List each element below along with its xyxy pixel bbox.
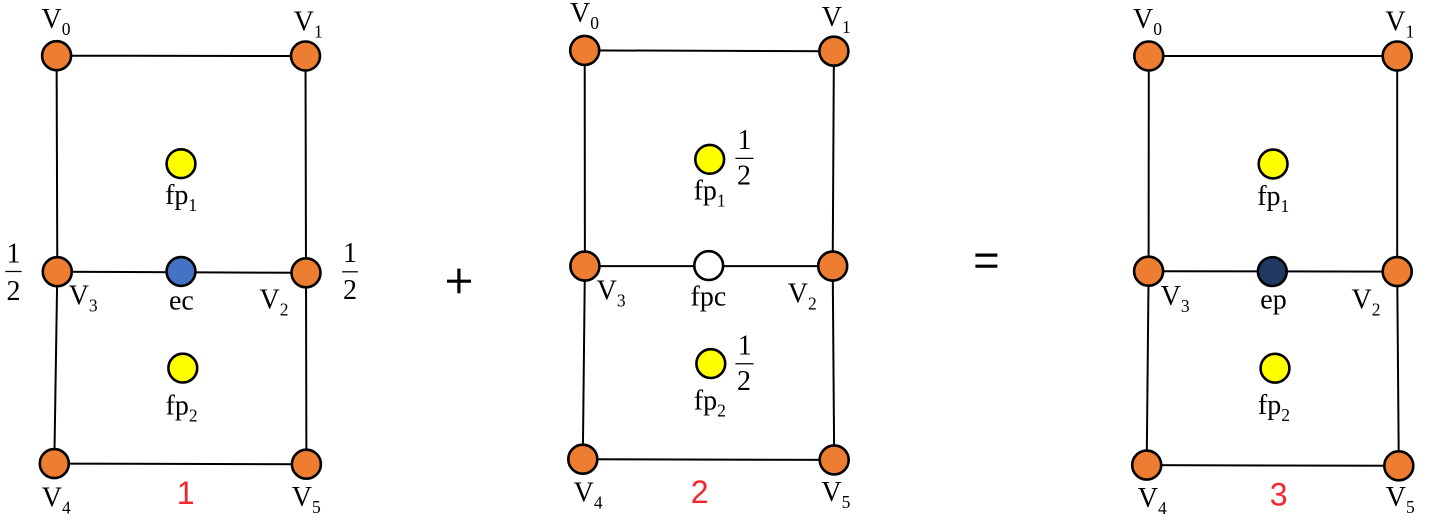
operator equals xyxy=(975,254,997,257)
svg-text:1: 1 xyxy=(738,330,752,361)
wire V1-V2 (fig1 upper right edge) xyxy=(305,56,308,273)
svg-text:ec: ec xyxy=(169,286,194,317)
svg-text:1: 1 xyxy=(343,238,357,269)
svg-text:2: 2 xyxy=(737,366,751,397)
vertex V2 (fig2) xyxy=(818,252,847,281)
wire V3-V2 (fig3 middle edge) xyxy=(1149,270,1398,272)
wire V4-V5 (fig3 bottom edge) xyxy=(1147,464,1399,467)
wire V0-V3 (fig3 upper left edge) xyxy=(1148,56,1150,271)
svg-text:2: 2 xyxy=(7,276,21,307)
wire V0-V3 (fig1 upper left edge) xyxy=(56,56,59,272)
vertex V2 (fig1) xyxy=(292,258,321,287)
vertex V4 (fig2) xyxy=(568,445,597,474)
face point fp1 (fig2) xyxy=(695,145,724,174)
wire V0-V1 (fig1 top edge) xyxy=(57,55,306,57)
vertex V4 (fig3) xyxy=(1132,451,1161,480)
wire V3-V4 (fig2 lower left edge) xyxy=(583,266,585,459)
edge centre ec (fig1) xyxy=(167,257,196,286)
vertex V5 (fig3) xyxy=(1384,451,1413,480)
vertex V5 (fig2) xyxy=(820,445,849,474)
face point fp1 (fig3) xyxy=(1259,150,1288,179)
wire V1-V2 (fig2 upper right edge) xyxy=(833,51,834,266)
svg-text:2: 2 xyxy=(343,275,357,306)
edge point ep (fig3, navy) xyxy=(1258,257,1287,286)
svg-text:2: 2 xyxy=(737,161,751,192)
svg-text:ep: ep xyxy=(1260,285,1286,316)
vertex V5 (fig1) xyxy=(292,450,321,479)
vertex V0 (fig2) xyxy=(570,36,599,65)
face point fp2 (fig3) xyxy=(1261,354,1290,383)
face point fp1 (fig1) xyxy=(167,149,196,178)
wire V3-V2 (fig2 middle edge) xyxy=(585,265,833,267)
wire V0-V3 (fig2 upper left edge) xyxy=(584,50,586,266)
face point fp2 (fig2) xyxy=(696,349,725,378)
wire V3-V4 (fig1 lower left edge) xyxy=(54,272,57,464)
vertex V3 (fig2) xyxy=(570,252,599,281)
vertex V2 (fig3) xyxy=(1383,257,1412,286)
wire V2-V5 (fig1 lower right edge) xyxy=(305,273,307,464)
wire V3-V2 (fig1 middle edge) xyxy=(57,272,306,273)
wire V0-V1 (fig2 top edge) xyxy=(585,49,834,52)
vertex V4 (fig1) xyxy=(40,449,69,478)
svg-text:2: 2 xyxy=(691,474,709,510)
wire V2-V5 (fig2 lower right edge) xyxy=(833,266,835,460)
svg-text:3: 3 xyxy=(1270,476,1288,512)
svg-text:1: 1 xyxy=(738,125,752,156)
wire V4-V5 (fig2 bottom edge) xyxy=(583,458,834,461)
wire V4-V5 (fig1 bottom edge) xyxy=(54,463,306,466)
vertex V0 (fig1) xyxy=(42,41,71,70)
vertex V1 (fig1) xyxy=(291,42,320,71)
wire V0-V1 (fig3 top edge) xyxy=(1149,55,1397,57)
face point centre fpc (fig2, white) xyxy=(694,251,723,280)
wire V2-V5 (fig3 lower right edge) xyxy=(1397,272,1399,466)
vertex V1 (fig3) xyxy=(1383,42,1412,71)
vertex V3 (fig1) xyxy=(43,257,72,286)
wire V1-V2 (fig3 upper right edge) xyxy=(1396,56,1398,272)
face point fp2 (fig1) xyxy=(168,354,197,383)
vertex V1 (fig2) xyxy=(819,37,848,66)
svg-text:fpc: fpc xyxy=(691,282,727,313)
wire V3-V4 (fig3 lower left edge) xyxy=(1147,271,1149,465)
svg-text:1: 1 xyxy=(7,239,21,270)
operator plus xyxy=(447,280,471,283)
svg-text:1: 1 xyxy=(177,475,195,511)
vertex V3 (fig3) xyxy=(1134,257,1163,286)
vertex V0 (fig3) xyxy=(1134,42,1163,71)
